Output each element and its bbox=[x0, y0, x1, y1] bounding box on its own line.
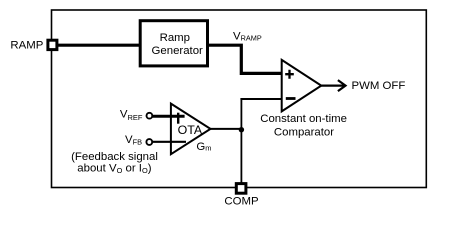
svg-text:Constant on-time: Constant on-time bbox=[260, 113, 347, 125]
svg-text:COMP: COMP bbox=[224, 196, 258, 208]
wire VREF to OTA + input bbox=[152, 115, 185, 118]
junction dot COMP net bbox=[239, 127, 244, 132]
comparator - input mark bbox=[286, 97, 296, 100]
terminal VREF bbox=[147, 113, 153, 119]
wire RAMP pin to Ramp Generator bbox=[56, 44, 140, 47]
svg-text:Ramp: Ramp bbox=[160, 32, 190, 44]
pin RAMP (square terminal) bbox=[48, 40, 57, 49]
svg-text:(Feedback signal: (Feedback signal bbox=[71, 151, 158, 163]
pin COMP (square terminal) bbox=[236, 184, 246, 194]
svg-text:RAMP: RAMP bbox=[10, 40, 43, 52]
wire OTA output to COMP net bbox=[210, 128, 242, 130]
terminal VFB bbox=[146, 139, 152, 145]
wire comparator output with arrow bbox=[321, 84, 344, 86]
wire COMP net vertical bbox=[240, 98, 242, 184]
comparator + input mark bbox=[285, 70, 294, 79]
svg-text:about VO or IO): about VO or IO) bbox=[77, 162, 151, 175]
comparator U1 (constant on-time comparator) bbox=[282, 60, 322, 112]
IC outline box bbox=[52, 10, 427, 188]
svg-text:Generator: Generator bbox=[152, 45, 203, 57]
svg-text:Comparator: Comparator bbox=[274, 126, 334, 138]
svg-text:OTA: OTA bbox=[178, 123, 203, 137]
wire VRAMP net: Ramp Generator to comparator + input bbox=[208, 45, 282, 73]
block Ramp Generator bbox=[140, 21, 207, 66]
OTA + input mark (vertical bar of plus) bbox=[177, 113, 179, 124]
OTA U2 bbox=[171, 104, 211, 155]
wire COMP net to comparator - input bbox=[240, 98, 281, 100]
wire VFB to OTA - input bbox=[152, 141, 187, 143]
svg-text:PWM OFF: PWM OFF bbox=[352, 80, 406, 92]
